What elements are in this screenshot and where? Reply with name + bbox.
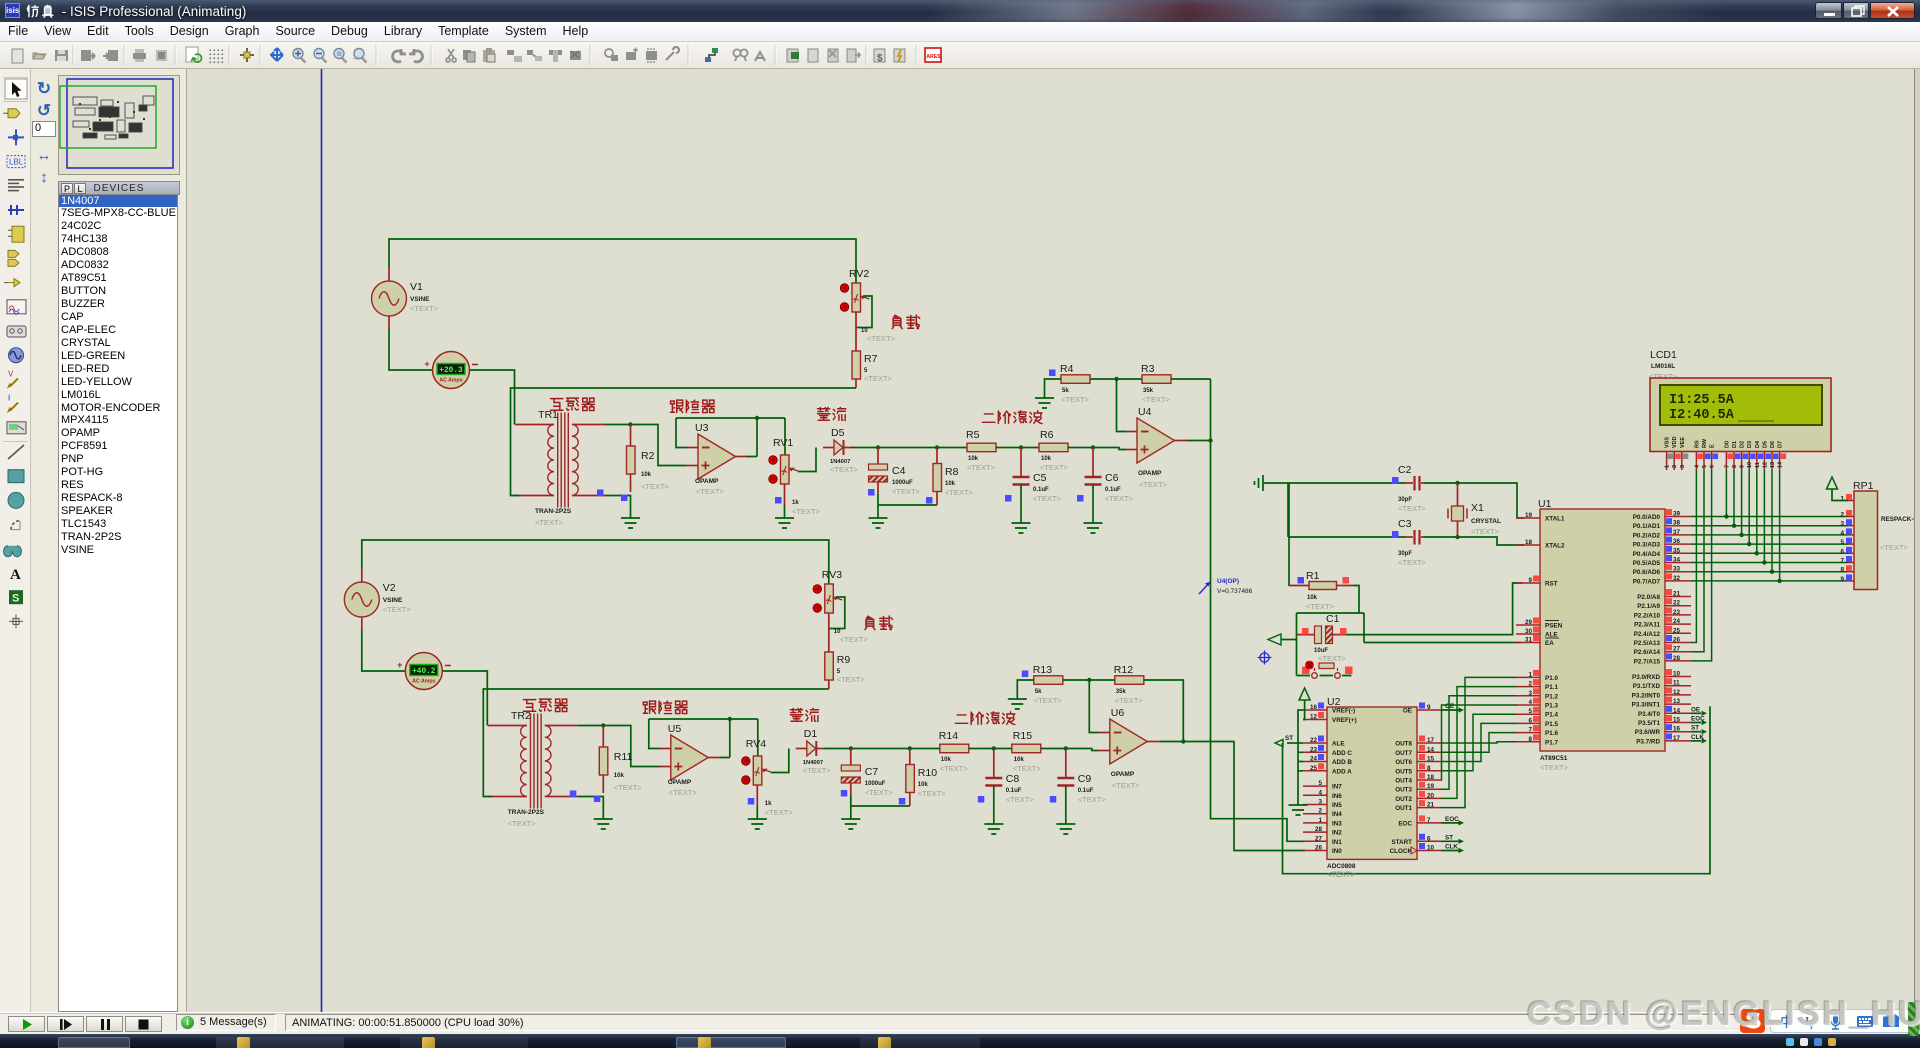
svg-text:P0.4/AD4: P0.4/AD4 xyxy=(1633,551,1661,558)
svg-text:24: 24 xyxy=(1310,756,1318,763)
svg-text:1k: 1k xyxy=(792,500,799,506)
ground xyxy=(748,819,767,829)
resistor pack RP1 xyxy=(1853,480,1917,590)
svg-text:12: 12 xyxy=(1673,689,1681,696)
watermark xyxy=(1527,995,1920,1034)
wire LCD control bus xyxy=(1691,470,1712,661)
svg-text:8: 8 xyxy=(1732,465,1738,468)
svg-text:7: 7 xyxy=(1724,465,1730,468)
capacitor C7 xyxy=(841,749,910,820)
svg-text:P2.0/A8: P2.0/A8 xyxy=(1637,594,1660,601)
svg-text:R6: R6 xyxy=(1040,429,1054,441)
svg-text:P3.4/T0: P3.4/T0 xyxy=(1638,711,1661,718)
svg-text:8: 8 xyxy=(1528,736,1532,743)
svg-text:IN6: IN6 xyxy=(1332,793,1342,800)
svg-text:V: V xyxy=(8,369,14,378)
terminal ST (U2) xyxy=(1441,834,1464,844)
svg-text:P2.3/A11: P2.3/A11 xyxy=(1634,622,1660,629)
node state square xyxy=(1049,370,1056,377)
svg-text:0.1uF: 0.1uF xyxy=(1105,487,1121,493)
wire bus U2 OUT to U1 P1 xyxy=(1441,677,1517,807)
svg-text:1000uF: 1000uF xyxy=(892,480,913,486)
svg-text:8: 8 xyxy=(1840,567,1844,574)
svg-text:+: + xyxy=(424,359,429,369)
svg-text:30pF: 30pF xyxy=(1398,551,1412,557)
svg-text:P2.7/A15: P2.7/A15 xyxy=(1634,658,1661,665)
svg-text:4: 4 xyxy=(1694,464,1700,468)
svg-text:RP1: RP1 xyxy=(1853,480,1874,492)
resistor R9 xyxy=(825,652,866,689)
svg-text:<TEXT>: <TEXT> xyxy=(1142,395,1171,404)
svg-text:OUT7: OUT7 xyxy=(1395,750,1412,757)
svg-text:10k: 10k xyxy=(1307,595,1318,601)
ground xyxy=(1008,699,1027,709)
svg-text:14: 14 xyxy=(1427,746,1435,753)
svg-text:10k: 10k xyxy=(941,757,952,763)
node state square xyxy=(1050,796,1057,803)
svg-text:10k: 10k xyxy=(945,481,956,487)
svg-text:29: 29 xyxy=(1525,619,1533,626)
wire V2 top to load xyxy=(362,540,829,584)
svg-text:AC Amps: AC Amps xyxy=(412,679,435,685)
resistor R11 xyxy=(599,726,642,794)
svg-text:ST: ST xyxy=(1285,735,1293,742)
svg-text:I: I xyxy=(8,394,10,403)
svg-text:13: 13 xyxy=(1673,698,1681,705)
svg-text:EOC: EOC xyxy=(1445,816,1459,823)
wire V1 to ammeter xyxy=(389,329,432,370)
node state square xyxy=(1298,577,1305,584)
svg-text:7: 7 xyxy=(1427,817,1431,824)
svg-text:C7: C7 xyxy=(865,766,879,778)
svg-text:V2: V2 xyxy=(383,582,396,594)
svg-text:<TEXT>: <TEXT> xyxy=(792,507,821,516)
svg-text:18: 18 xyxy=(1525,539,1533,546)
svg-text:C6: C6 xyxy=(1105,472,1119,484)
svg-text:<TEXT>: <TEXT> xyxy=(892,487,921,496)
capacitor C8 xyxy=(985,749,1034,825)
svg-text:17: 17 xyxy=(1427,737,1435,744)
svg-text:26: 26 xyxy=(1673,637,1681,644)
svg-text:21: 21 xyxy=(1673,591,1681,598)
wire load return to TR primary xyxy=(483,689,829,797)
resistor R2 xyxy=(627,425,670,493)
svg-text:LBL: LBL xyxy=(9,158,24,167)
U2 right pins xyxy=(1390,703,1441,856)
label 整流 xyxy=(818,408,846,421)
svg-text:AT89C51: AT89C51 xyxy=(1540,755,1568,762)
svg-text:RV1: RV1 xyxy=(773,437,793,449)
node state square xyxy=(926,497,933,504)
svg-text:<TEXT>: <TEXT> xyxy=(1540,763,1569,772)
svg-text:7: 7 xyxy=(1840,558,1844,565)
svg-text:<TEXT>: <TEXT> xyxy=(940,764,969,773)
svg-text:D6: D6 xyxy=(1770,441,1776,448)
ground (xtal) xyxy=(1255,475,1289,491)
svg-text:P3.0/RXD: P3.0/RXD xyxy=(1632,674,1660,681)
taskbar xyxy=(0,1034,1920,1048)
node state square xyxy=(748,798,755,805)
wire filter out xyxy=(1041,746,1099,750)
svg-text:<TEXT>: <TEXT> xyxy=(383,605,412,614)
svg-text:P1.1: P1.1 xyxy=(1545,684,1558,691)
svg-text:27: 27 xyxy=(1315,835,1323,842)
svg-text:U3: U3 xyxy=(695,422,709,434)
CLOCK pin marker xyxy=(1411,847,1417,854)
resistor R5 xyxy=(966,429,996,472)
ground xyxy=(775,518,794,528)
svg-text:D1: D1 xyxy=(804,728,818,740)
label 互感器 xyxy=(523,699,567,711)
wire ammeter to TR primary xyxy=(443,671,488,726)
U1 left pins xyxy=(1516,512,1565,746)
node state square xyxy=(1392,477,1399,484)
node state square xyxy=(978,796,985,803)
wire TR secondary bottom to ground xyxy=(605,496,631,519)
svg-text:LCD1: LCD1 xyxy=(1650,349,1677,361)
svg-text:<TEXT>: <TEXT> xyxy=(967,463,996,472)
svg-text:IN3: IN3 xyxy=(1332,820,1342,827)
resistor R3 xyxy=(1141,363,1171,404)
node state square xyxy=(868,489,875,496)
svg-text:2: 2 xyxy=(1672,465,1678,468)
svg-text:<TEXT>: <TEXT> xyxy=(867,334,896,343)
svg-text:10: 10 xyxy=(1427,845,1435,852)
svg-text:<TEXT>: <TEXT> xyxy=(840,635,869,644)
svg-text:P2.4/A12: P2.4/A12 xyxy=(1634,631,1661,638)
svg-text:5: 5 xyxy=(1528,708,1532,715)
wire output feedback xyxy=(1144,680,1184,742)
node state square xyxy=(1302,667,1310,675)
svg-text:35: 35 xyxy=(1673,547,1681,554)
wire C1 to RST xyxy=(1346,583,1522,635)
svg-text:ADD A: ADD A xyxy=(1332,768,1352,775)
capacitor C4 xyxy=(869,448,938,519)
wire ALE loop long xyxy=(1283,706,1711,873)
svg-text:EA: EA xyxy=(1545,640,1554,647)
label 跟随器 xyxy=(671,400,715,412)
svg-text:<TEXT>: <TEXT> xyxy=(1471,527,1500,536)
svg-text:IN1: IN1 xyxy=(1332,839,1342,846)
resistor R10 xyxy=(906,749,947,807)
svg-text:0.1uF: 0.1uF xyxy=(1078,788,1094,794)
svg-text:P0.1/AD1: P0.1/AD1 xyxy=(1633,523,1661,530)
svg-text:11: 11 xyxy=(1755,462,1761,468)
svg-text:OPAMP: OPAMP xyxy=(1138,470,1162,477)
svg-text:9: 9 xyxy=(1740,465,1746,468)
svg-text:1: 1 xyxy=(1318,817,1322,824)
terminal CLK (U2) xyxy=(1441,844,1464,854)
svg-text:4: 4 xyxy=(1318,789,1322,796)
wire TR secondary bottom to ground xyxy=(578,797,604,820)
svg-text:P3.1/TXD: P3.1/TXD xyxy=(1633,683,1661,690)
node state square xyxy=(1302,628,1309,635)
svg-text:4: 4 xyxy=(1840,530,1844,537)
wire xtal bottom xyxy=(1288,535,1524,545)
svg-text:P0.5/AD5: P0.5/AD5 xyxy=(1633,560,1661,567)
svg-text:ADD B: ADD B xyxy=(1332,759,1352,766)
svg-text:P0.0/AD0: P0.0/AD0 xyxy=(1633,514,1661,521)
svg-text:<TEXT>: <TEXT> xyxy=(803,766,832,775)
svg-text:11: 11 xyxy=(1673,680,1680,687)
svg-text:33: 33 xyxy=(1673,566,1681,573)
svg-text:<TEXT>: <TEXT> xyxy=(918,789,947,798)
sogou IME bar xyxy=(1770,1009,1920,1033)
toolbar xyxy=(0,42,1920,69)
svg-text:10k: 10k xyxy=(1014,757,1025,763)
svg-text:RV3: RV3 xyxy=(822,569,842,581)
wire filter mid xyxy=(996,445,1039,449)
svg-text:4: 4 xyxy=(1528,699,1532,706)
resistor R8 xyxy=(933,448,974,506)
label 跟随器 xyxy=(643,701,687,713)
svg-text:TRAN-2P2S: TRAN-2P2S xyxy=(508,809,545,816)
LCD LCD1 LM016L xyxy=(1649,349,1831,452)
potentiometer RV4 xyxy=(742,719,794,819)
svg-text:R13: R13 xyxy=(1033,664,1052,676)
wire TR secondary to follower xyxy=(578,723,660,766)
svg-text:<TEXT>: <TEXT> xyxy=(837,675,866,684)
svg-text:V1: V1 xyxy=(410,281,423,293)
svg-text:P0.7/AD7: P0.7/AD7 xyxy=(1633,578,1661,585)
node state square xyxy=(1392,531,1399,538)
ground xyxy=(1084,523,1103,533)
svg-text:<TEXT>: <TEXT> xyxy=(945,488,974,497)
origin marker xyxy=(1258,651,1272,665)
svg-text:P2.2/A10: P2.2/A10 xyxy=(1634,612,1661,619)
svg-text:VREF(+): VREF(+) xyxy=(1332,717,1357,724)
svg-text:39: 39 xyxy=(1673,511,1681,518)
svg-text:8: 8 xyxy=(1427,765,1431,772)
diode D1 xyxy=(796,728,832,775)
svg-text:10k: 10k xyxy=(641,472,652,478)
svg-text:19: 19 xyxy=(1427,783,1435,790)
wire gain node xyxy=(1063,678,1115,733)
IC U2 ADC0808 body xyxy=(1327,696,1417,870)
capacitor C5 xyxy=(1013,448,1062,524)
svg-text:P2.1/A9: P2.1/A9 xyxy=(1637,603,1660,610)
svg-text:6: 6 xyxy=(1427,835,1431,842)
svg-text:9: 9 xyxy=(1427,704,1431,711)
svg-text:3: 3 xyxy=(1318,799,1322,806)
svg-text:ST: ST xyxy=(1445,834,1453,841)
svg-text:1000uF: 1000uF xyxy=(865,781,886,787)
svg-text:32: 32 xyxy=(1673,575,1681,582)
sheet edge xyxy=(321,69,323,1012)
svg-text:<TEXT>: <TEXT> xyxy=(765,808,794,817)
status bar xyxy=(0,1012,1920,1034)
svg-text:U1: U1 xyxy=(1538,498,1552,510)
svg-text:<TEXT>: <TEXT> xyxy=(641,482,670,491)
terminal EOC (U1) xyxy=(1691,716,1707,726)
svg-text:C4: C4 xyxy=(892,465,906,477)
svg-text:XTAL2: XTAL2 xyxy=(1545,543,1565,550)
resistor R1 xyxy=(1289,483,1353,611)
svg-text:U6: U6 xyxy=(1111,707,1125,719)
sine source V2 xyxy=(344,569,411,630)
svg-text:20: 20 xyxy=(1427,792,1435,799)
svg-text:P1.2: P1.2 xyxy=(1545,693,1558,700)
node state square xyxy=(1345,667,1353,675)
wire VREF- / ADD to ground xyxy=(1298,710,1303,805)
terminal CLK (U1) xyxy=(1691,734,1707,744)
svg-text:10k: 10k xyxy=(918,782,929,788)
wire to ADC IN1 xyxy=(1208,379,1305,841)
svg-text:<TEXT>: <TEXT> xyxy=(1061,395,1090,404)
svg-text:C3: C3 xyxy=(1398,518,1412,530)
svg-text:P1.4: P1.4 xyxy=(1545,712,1558,719)
node state square xyxy=(899,798,906,805)
svg-text:5: 5 xyxy=(1318,780,1322,787)
svg-text:30pF: 30pF xyxy=(1398,497,1412,503)
svg-text:10k: 10k xyxy=(1041,456,1052,462)
svg-text:0.1uF: 0.1uF xyxy=(1033,487,1049,493)
svg-text:EOC: EOC xyxy=(1398,820,1412,827)
svg-text:OE: OE xyxy=(1403,708,1412,715)
svg-text:<TEXT>: <TEXT> xyxy=(1398,504,1427,513)
svg-text:3: 3 xyxy=(1528,690,1532,697)
svg-text:<TEXT>: <TEXT> xyxy=(1139,480,1168,489)
resistor R6 xyxy=(1039,429,1069,472)
terminal ST (U1) xyxy=(1691,725,1707,735)
svg-text:X1: X1 xyxy=(1471,502,1484,514)
node state square xyxy=(1343,577,1350,584)
svg-text:IN7: IN7 xyxy=(1332,784,1342,791)
svg-text:CLK: CLK xyxy=(1445,844,1458,851)
svg-text:R5: R5 xyxy=(966,429,980,441)
svg-text:C9: C9 xyxy=(1078,773,1092,785)
svg-text:RW: RW xyxy=(1702,438,1708,448)
resistor R14 xyxy=(939,730,969,773)
svg-text:VEE: VEE xyxy=(1680,437,1686,448)
svg-text:P1.0: P1.0 xyxy=(1545,675,1558,682)
svg-text:S: S xyxy=(12,593,19,605)
svg-text:P3.5/T1: P3.5/T1 xyxy=(1638,720,1661,727)
svg-text:R3: R3 xyxy=(1141,363,1155,375)
svg-text:OUT3: OUT3 xyxy=(1395,787,1412,794)
wire rectifier to filter xyxy=(851,445,967,449)
svg-text:<TEXT>: <TEXT> xyxy=(1006,795,1035,804)
svg-text:<TEXT>: <TEXT> xyxy=(410,304,439,313)
svg-text:R15: R15 xyxy=(1013,730,1032,742)
svg-text:10: 10 xyxy=(1673,671,1681,678)
svg-text:5k: 5k xyxy=(1035,689,1042,695)
svg-text:17: 17 xyxy=(1673,735,1681,742)
svg-text:A: A xyxy=(10,567,21,583)
orientation column xyxy=(31,69,57,1012)
svg-text:R1: R1 xyxy=(1306,570,1320,582)
left column separators xyxy=(3,77,28,78)
svg-text:6: 6 xyxy=(1528,717,1532,724)
svg-text:D4: D4 xyxy=(1755,440,1761,448)
svg-text:P3.2/INT0: P3.2/INT0 xyxy=(1632,692,1661,699)
svg-text:2: 2 xyxy=(1318,808,1322,815)
svg-text:R8: R8 xyxy=(945,466,959,478)
svg-text:OUT1: OUT1 xyxy=(1395,805,1412,812)
svg-text:<TEXT>: <TEXT> xyxy=(1880,543,1909,552)
svg-text:AC Amps: AC Amps xyxy=(439,378,462,384)
capacitor C2 xyxy=(1398,464,1427,513)
wire xtal top xyxy=(1288,481,1524,518)
svg-text:38: 38 xyxy=(1673,520,1681,527)
wire rectifier to filter xyxy=(824,746,940,750)
svg-text:RV2: RV2 xyxy=(849,268,869,280)
svg-text:28: 28 xyxy=(1315,826,1323,833)
svg-text:R7: R7 xyxy=(864,353,878,365)
svg-text:28: 28 xyxy=(1673,655,1681,662)
svg-text:7: 7 xyxy=(1528,727,1532,734)
transformer TR1 xyxy=(515,409,605,527)
svg-text:R14: R14 xyxy=(939,730,958,742)
svg-text:<TEXT>: <TEXT> xyxy=(864,374,893,383)
potentiometer RV3 xyxy=(813,569,868,652)
capacitor C6 xyxy=(1085,448,1134,524)
ground xyxy=(984,824,1003,834)
svg-text:P1.7: P1.7 xyxy=(1545,739,1558,746)
ground xyxy=(869,518,888,528)
menu bar xyxy=(0,22,1920,42)
svg-text:P0.3/AD3: P0.3/AD3 xyxy=(1633,542,1661,549)
ground xyxy=(1012,523,1031,533)
node state square xyxy=(570,791,577,798)
svg-text:9: 9 xyxy=(1528,577,1532,584)
svg-text:<TEXT>: <TEXT> xyxy=(1398,558,1427,567)
svg-text:<TEXT>: <TEXT> xyxy=(1013,764,1042,773)
svg-text:P1.5: P1.5 xyxy=(1545,721,1558,728)
svg-text:9: 9 xyxy=(1840,576,1844,583)
svg-text:6: 6 xyxy=(1710,465,1716,468)
label 负载 xyxy=(865,616,893,630)
node state square xyxy=(594,796,601,803)
svg-text:1: 1 xyxy=(1840,496,1844,503)
svg-text:<TEXT>: <TEXT> xyxy=(508,819,537,828)
wire P0 bus to RP1 xyxy=(1691,517,1848,581)
svg-text:12: 12 xyxy=(1310,714,1318,721)
svg-text:IN4: IN4 xyxy=(1332,811,1342,818)
wire V1 top to load xyxy=(389,239,856,283)
svg-text:PSEN: PSEN xyxy=(1545,623,1563,630)
svg-text:I2:40.5A: I2:40.5A xyxy=(1669,408,1735,423)
op-amp U4 xyxy=(1125,406,1187,489)
wire V2 to ammeter xyxy=(362,630,405,671)
svg-text:V=0.737486: V=0.737486 xyxy=(1217,588,1253,595)
node state square xyxy=(1022,671,1029,678)
resistor R4 xyxy=(1045,363,1091,404)
svg-text:6: 6 xyxy=(1840,548,1844,555)
svg-text:<TEXT>: <TEXT> xyxy=(1078,795,1107,804)
diode D5 xyxy=(823,427,859,474)
svg-text:1k: 1k xyxy=(765,801,772,807)
svg-text:<TEXT>: <TEXT> xyxy=(1040,463,1069,472)
svg-text:D5: D5 xyxy=(831,427,845,439)
svg-text:OPAMP: OPAMP xyxy=(1111,771,1135,778)
svg-text:37: 37 xyxy=(1673,529,1681,536)
svg-text:P3.3/INT1: P3.3/INT1 xyxy=(1632,702,1661,709)
svg-text:IN0: IN0 xyxy=(1332,848,1342,855)
svg-text:<TEXT>: <TEXT> xyxy=(1112,781,1141,790)
device list xyxy=(58,195,178,1012)
wire reset loop xyxy=(1297,613,1365,676)
svg-text:E: E xyxy=(1710,444,1716,448)
node state square xyxy=(597,490,604,497)
node state square xyxy=(1005,495,1012,502)
AC ammeter +40.2 xyxy=(397,653,451,690)
svg-text:<TEXT>: <TEXT> xyxy=(669,788,698,797)
svg-text:VSINE: VSINE xyxy=(383,597,403,604)
svg-text:R9: R9 xyxy=(837,654,851,666)
svg-text:C2: C2 xyxy=(1398,464,1412,476)
wire R1 to reset loop xyxy=(1353,586,1359,614)
